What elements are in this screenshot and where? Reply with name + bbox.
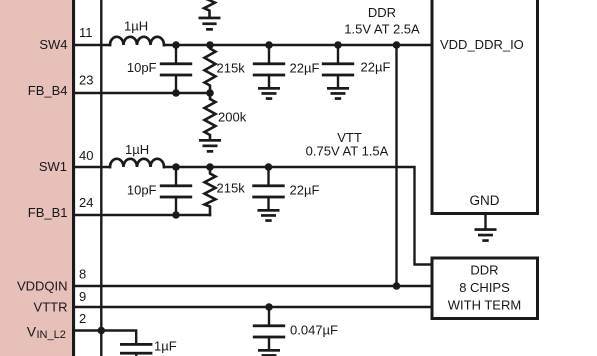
svg-text:VDDQIN: VDDQIN [17,278,68,293]
svg-text:0.75V AT 1.5A: 0.75V AT 1.5A [306,144,389,159]
svg-text:11: 11 [79,25,93,40]
svg-text:24: 24 [79,195,93,210]
svg-text:FB_B1: FB_B1 [28,205,68,220]
svg-text:GND: GND [470,193,500,208]
svg-text:1µF: 1µF [154,339,177,354]
svg-text:22µF: 22µF [290,60,320,75]
svg-text:VTTR: VTTR [34,299,68,314]
svg-text:VDD_DDR_IO: VDD_DDR_IO [440,37,524,52]
svg-text:SW1: SW1 [39,159,67,174]
svg-text:22µF: 22µF [361,60,391,75]
svg-text:FB_B4: FB_B4 [28,83,68,98]
svg-text:8 CHIPS: 8 CHIPS [459,280,510,295]
svg-text:40: 40 [79,148,93,163]
svg-text:215k: 215k [217,181,246,196]
svg-text:DDR: DDR [470,263,498,278]
svg-text:SW4: SW4 [39,37,67,52]
svg-text:8: 8 [79,267,86,282]
svg-text:V: V [27,323,37,339]
svg-text:215k: 215k [217,61,246,76]
svg-text:2: 2 [79,311,86,326]
svg-text:10pF: 10pF [127,183,157,198]
svg-text:1µH: 1µH [125,142,149,157]
svg-text:IN_L2: IN_L2 [37,329,66,341]
svg-text:23: 23 [79,73,93,88]
svg-text:1µH: 1µH [124,19,148,34]
svg-text:9: 9 [79,289,86,304]
svg-text:0.047µF: 0.047µF [290,323,338,338]
svg-text:10pF: 10pF [127,60,157,75]
svg-text:1.5V AT 2.5A: 1.5V AT 2.5A [344,22,420,37]
svg-text:22µF: 22µF [290,183,320,198]
svg-text:200k: 200k [218,110,247,125]
svg-text:WITH TERM: WITH TERM [448,297,521,312]
svg-text:DDR: DDR [368,5,396,20]
